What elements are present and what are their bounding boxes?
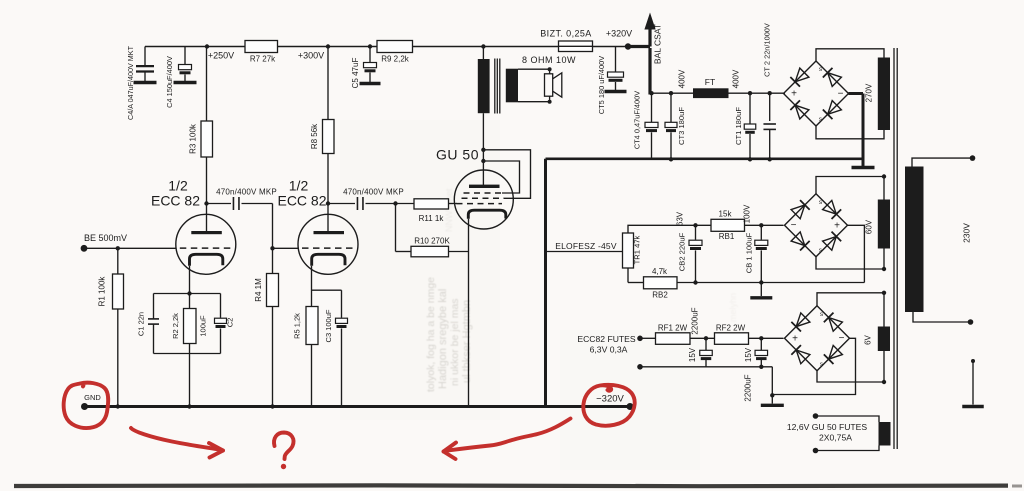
- svg-text:1/2: 1/2: [168, 178, 188, 194]
- svg-text:RB1: RB1: [719, 232, 735, 241]
- svg-text:Hadigon sregybe kal: Hadigon sregybe kal: [437, 289, 449, 389]
- svg-text:ECC82 FUTES: ECC82 FUTES: [577, 334, 636, 344]
- svg-text:400V: 400V: [732, 69, 741, 88]
- svg-text:+320V: +320V: [606, 29, 632, 39]
- svg-text:+300V: +300V: [298, 51, 324, 61]
- svg-text:NNW lahet: NNW lahet: [444, 188, 454, 232]
- svg-text:1/2: 1/2: [289, 178, 309, 194]
- svg-text:CT1 180uF: CT1 180uF: [734, 107, 743, 145]
- svg-text:4,7k: 4,7k: [652, 267, 668, 276]
- svg-text:12,6V GU 50 FUTES: 12,6V GU 50 FUTES: [787, 422, 868, 432]
- svg-text:−: −: [838, 88, 844, 99]
- svg-text:R4 1M: R4 1M: [254, 278, 263, 302]
- svg-text:BAL CSAT: BAL CSAT: [653, 24, 663, 64]
- svg-text:R3 100k: R3 100k: [189, 123, 198, 154]
- svg-text:R7 27k: R7 27k: [250, 55, 276, 64]
- svg-text:C1 22n: C1 22n: [137, 312, 146, 336]
- svg-text:TR1 47k: TR1 47k: [633, 235, 642, 264]
- svg-text:FT: FT: [705, 77, 715, 87]
- svg-text:+: +: [792, 334, 798, 345]
- svg-text:ECC 82: ECC 82: [151, 193, 200, 209]
- svg-text:15k: 15k: [719, 210, 733, 219]
- svg-text:GND: GND: [84, 393, 101, 402]
- svg-text:R9 2,2k: R9 2,2k: [381, 55, 410, 64]
- svg-text:R5 1,2k: R5 1,2k: [293, 313, 302, 339]
- svg-text:ni ukkor be jel mas: ni ukkor be jel mas: [449, 298, 461, 386]
- svg-text:−: −: [839, 333, 845, 344]
- svg-text:CT4 0,47uF/400V: CT4 0,47uF/400V: [633, 91, 642, 149]
- svg-text:C4 150uF/400V: C4 150uF/400V: [165, 56, 174, 108]
- svg-text:100V: 100V: [743, 204, 752, 223]
- svg-text:2200uF: 2200uF: [691, 307, 700, 334]
- svg-text:63V: 63V: [676, 211, 685, 226]
- svg-text:ECC 82: ECC 82: [277, 193, 326, 209]
- svg-text:+: +: [791, 89, 797, 100]
- svg-text:R11 1k: R11 1k: [419, 214, 445, 223]
- svg-text:−320V: −320V: [596, 394, 624, 405]
- svg-text:270V: 270V: [865, 83, 874, 102]
- svg-text:CT 2 22n/1000V: CT 2 22n/1000V: [763, 23, 772, 77]
- svg-text:15V: 15V: [688, 347, 697, 362]
- svg-text:ELOFESZ -45V: ELOFESZ -45V: [555, 241, 617, 251]
- svg-text:RF1 2W: RF1 2W: [658, 324, 688, 333]
- svg-text:C3 100uF: C3 100uF: [324, 309, 333, 342]
- svg-text:R8 56k: R8 56k: [310, 123, 319, 149]
- svg-text:C4/A 047uF/400V MKT: C4/A 047uF/400V MKT: [126, 45, 135, 120]
- svg-text:RF2 2W: RF2 2W: [716, 324, 746, 333]
- svg-text:470n/400V MKP: 470n/400V MKP: [343, 188, 404, 197]
- svg-text:melyhn: melyhn: [728, 293, 738, 322]
- svg-text:R2 2,2k: R2 2,2k: [171, 313, 180, 339]
- svg-text:470n/400V MKP: 470n/400V MKP: [216, 188, 277, 197]
- svg-text:2200uF: 2200uF: [744, 374, 753, 401]
- svg-text:ul tbkser Hgtmbn: ul tbkser Hgtmbn: [461, 300, 473, 383]
- svg-text:15V: 15V: [744, 347, 753, 362]
- svg-text:RB2: RB2: [652, 291, 668, 300]
- svg-text:C5 47uF: C5 47uF: [351, 58, 360, 89]
- svg-text:R1 100k: R1 100k: [98, 276, 107, 307]
- svg-text:tolyok, fog ha a be nmge: tolyok, fog ha a be nmge: [425, 277, 437, 392]
- svg-text:R10 270K: R10 270K: [414, 237, 450, 246]
- svg-text:100uF: 100uF: [199, 315, 208, 337]
- svg-text:GU 50: GU 50: [436, 147, 479, 163]
- svg-text:CT5 180 uF/400V: CT5 180 uF/400V: [597, 56, 606, 114]
- svg-text:CB 1 100uF: CB 1 100uF: [745, 232, 754, 273]
- svg-text:6V: 6V: [864, 334, 873, 344]
- svg-text:CB2 220uF: CB2 220uF: [678, 232, 687, 271]
- svg-text:−: −: [791, 220, 797, 231]
- svg-text:230V: 230V: [962, 223, 972, 243]
- svg-text:6,3V 0,3A: 6,3V 0,3A: [590, 345, 628, 355]
- svg-text:CT3 180uF: CT3 180uF: [677, 107, 686, 145]
- svg-text:8 OHM 10W: 8 OHM 10W: [522, 55, 576, 65]
- svg-text:2X0,75A: 2X0,75A: [819, 433, 852, 443]
- svg-text:BE 500mV: BE 500mV: [84, 233, 127, 243]
- svg-text:C2: C2: [226, 318, 235, 328]
- svg-text:400V: 400V: [678, 69, 687, 88]
- svg-text:BIZT. 0,25A: BIZT. 0,25A: [540, 29, 591, 39]
- svg-text:+250V: +250V: [208, 51, 234, 61]
- svg-text:+: +: [834, 221, 840, 232]
- svg-text:60V: 60V: [865, 219, 874, 234]
